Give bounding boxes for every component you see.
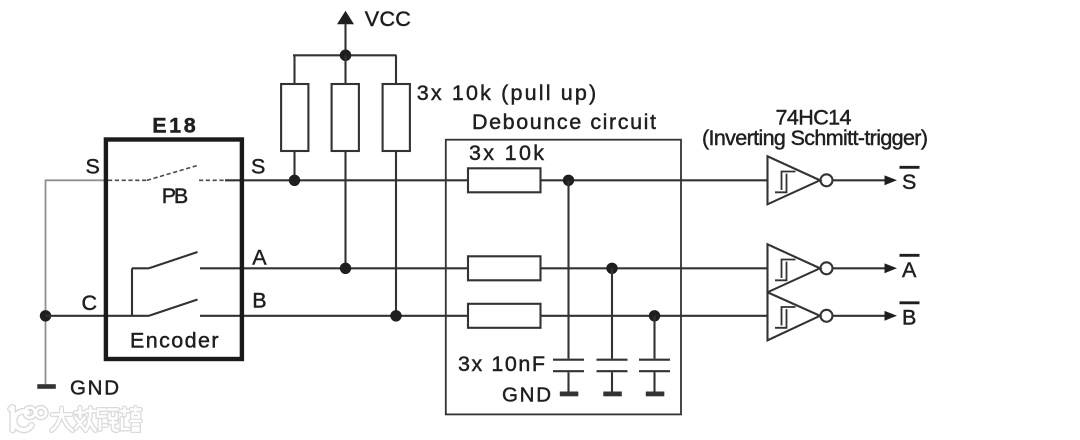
wire: C2 bottom lead <box>611 372 613 391</box>
svg-text:A: A <box>252 245 267 269</box>
wire: C1 bottom lead <box>567 372 569 391</box>
wire: U1A output <box>833 179 886 181</box>
arrow: S-bar output <box>885 175 898 185</box>
resistor R2 (pull-up A) <box>332 84 359 151</box>
node: VCC rail junction <box>340 50 352 62</box>
encoder E18 body <box>106 140 242 360</box>
watermark text: 大数跨境 (drawn strokes, white with gray halo) <box>52 408 141 431</box>
wire: B net from switch contact to Schmitt trigger input <box>200 315 768 317</box>
power: VCC arrow <box>337 11 354 24</box>
wire: R3 bottom to B net <box>395 151 397 316</box>
svg-text:S: S <box>251 155 265 179</box>
wire: C net from junction into encoder to switch pivot <box>46 315 150 317</box>
svg-text:B: B <box>902 305 916 329</box>
resistor R1 (pull-up S) <box>281 84 308 151</box>
node: junction of C wire with left gray wire <box>40 310 51 321</box>
watermark logo "100" (white with gray halo) <box>11 407 47 430</box>
capacitor C3 <box>639 360 670 372</box>
wire: R2 bottom to A net <box>344 151 346 268</box>
switch B (encoder contact) <box>149 300 198 316</box>
node: R1 to S net <box>289 175 300 186</box>
svg-text:B: B <box>252 289 266 313</box>
wire: stub to R1 top <box>293 55 295 84</box>
ground: GND bar under C2 <box>603 392 622 397</box>
wire: C3 top lead <box>653 316 655 359</box>
arrow: B-bar output <box>885 311 898 321</box>
wire: C2 top lead <box>611 268 613 358</box>
op-amp U1A: Schmitt inverter for S <box>768 156 833 204</box>
ground: GND bar under C1 <box>560 392 579 397</box>
resistor R5 (series A) <box>468 256 541 280</box>
wire: U1B output <box>833 267 886 269</box>
capacitor C1 <box>553 360 584 372</box>
node: A net to C2 <box>606 263 617 274</box>
wire: pull-up top rail <box>293 54 397 56</box>
svg-text:(Inverting Schmitt-trigger): (Inverting Schmitt-trigger) <box>702 126 928 150</box>
wire: vertical link from switch A pivot to C wire <box>131 268 133 316</box>
node: B net to C3 <box>649 310 660 321</box>
resistor R6 (series B) <box>468 304 541 328</box>
node: R3 to B net <box>390 310 401 321</box>
svg-text:GND: GND <box>502 384 551 407</box>
wire: left S net (gray) from encoder S pin left <box>46 180 105 384</box>
wire: VCC stub <box>344 24 346 56</box>
wire: C1 top lead <box>567 180 569 358</box>
wire: U1C output <box>833 315 886 317</box>
svg-text:C: C <box>82 291 98 315</box>
svg-text:Debounce circuit: Debounce circuit <box>472 110 656 134</box>
wire: S net from encoder right pin to Schmitt trigger input <box>225 179 768 181</box>
svg-text:3x 10k (pull up): 3x 10k (pull up) <box>417 81 597 105</box>
wire: C3 bottom lead <box>653 372 655 391</box>
wire: stub to R2 top <box>344 55 346 84</box>
ground: left GND bar <box>37 384 56 389</box>
svg-text:Encoder: Encoder <box>130 328 219 352</box>
svg-text:3x 10nF: 3x 10nF <box>458 352 545 376</box>
resistor R4 (series S) <box>468 168 541 192</box>
node: R2 to A net <box>340 263 351 274</box>
resistor R3 (pull-up B) <box>383 84 410 151</box>
svg-text:GND: GND <box>70 377 119 400</box>
svg-text:3x 10k: 3x 10k <box>469 141 544 165</box>
svg-text:E18: E18 <box>152 114 196 138</box>
svg-text:VCC: VCC <box>365 7 411 31</box>
wire: stub to R3 top <box>395 55 397 84</box>
capacitor C2 <box>597 360 628 372</box>
switch PB (dashed) <box>108 165 225 180</box>
op-amp U1B: Schmitt inverter for A <box>768 244 833 292</box>
switch A (encoder contact) <box>132 252 198 268</box>
debounce circuit box <box>446 140 681 415</box>
ground: GND bar under C3 <box>646 392 665 397</box>
op-amp U1C: Schmitt inverter for B <box>768 292 833 340</box>
svg-text:S: S <box>902 170 916 194</box>
wire: R1 bottom to S net <box>293 151 295 180</box>
wire: A net from switch contact to Schmitt trigger input <box>200 267 768 269</box>
svg-text:A: A <box>902 258 917 282</box>
svg-text:PB: PB <box>162 184 189 208</box>
svg-text:S: S <box>86 155 100 179</box>
node: S net to C1 <box>563 175 574 186</box>
arrow: A-bar output <box>885 263 898 273</box>
